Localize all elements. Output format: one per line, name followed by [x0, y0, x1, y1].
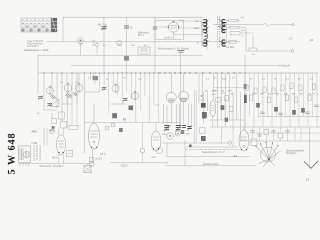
svg-text:50: 50 — [252, 94, 255, 96]
wire — [210, 120, 245, 127]
wire — [110, 162, 168, 164]
svg-text:50: 50 — [231, 94, 234, 96]
label row under HT bus — [88, 78, 142, 81]
wire top right long — [240, 140, 320, 142]
coil winding hatch L1 — [66, 93, 72, 98]
svg-text:50: 50 — [37, 113, 40, 115]
electrolytic C10 — [221, 105, 225, 110]
svg-text:5000: 5000 — [222, 79, 227, 81]
tube voltage table — [21, 18, 57, 32]
svg-text:8: 8 — [314, 94, 316, 96]
svg-text:2,4: 2,4 — [289, 38, 293, 41]
electrolytic C25 — [112, 113, 117, 118]
svg-text:0,1: 0,1 — [268, 94, 272, 96]
svg-text:50: 50 — [197, 43, 200, 45]
value labels row — [162, 134, 190, 137]
svg-text:0,1: 0,1 — [206, 79, 210, 81]
electrolytic C16 — [119, 128, 123, 132]
svg-text:Spannungswähler: Spannungswähler — [286, 150, 305, 153]
tube V3 AL4 — [151, 123, 161, 152]
switch wafer triangle — [50, 99, 59, 107]
wire — [186, 146, 238, 148]
variable coil L10 — [112, 83, 119, 93]
electrolytic C41 — [274, 107, 278, 112]
variable coil L2 — [75, 83, 83, 93]
trimmer capacitor C1 — [98, 17, 108, 73]
secondary winding bumps — [222, 20, 225, 47]
svg-text:a 13,4: a 13,4 — [96, 159, 103, 161]
output transformer T1 — [31, 143, 41, 161]
trimmer capacitor C23 — [123, 98, 128, 103]
svg-text:50: 50 — [130, 27, 133, 30]
resistor R25 — [294, 97, 297, 103]
resistor R22 — [281, 85, 284, 91]
wire main HT bus — [38, 72, 318, 74]
lower mid wires — [164, 73, 208, 125]
variable coil L11 — [132, 91, 139, 100]
capacitor C33 — [286, 131, 290, 133]
resistor R1 — [217, 19, 240, 22]
wire grid bus — [38, 54, 203, 56]
svg-text:a 4,8 V: a 4,8 V — [164, 37, 172, 40]
svg-text:5000: 5000 — [212, 90, 218, 92]
wire heater bus — [167, 156, 251, 158]
dial lamp 2 — [140, 148, 145, 153]
screen can — [50, 129, 55, 134]
terminal on AVC bus — [93, 41, 95, 43]
PSU value labels — [244, 94, 319, 96]
middle column wires — [91, 73, 159, 123]
svg-text:Netzanschl. 110-240 V: Netzanschl. 110-240 V — [40, 165, 64, 168]
wire pointer — [309, 127, 311, 168]
svg-text:0,1: 0,1 — [103, 45, 107, 47]
svg-text:300: 300 — [212, 94, 216, 96]
dial flag — [117, 41, 121, 45]
capacitor C13 — [181, 130, 184, 134]
wire — [221, 127, 240, 147]
wire — [245, 132, 320, 134]
grid capacitor C15 — [111, 123, 115, 127]
svg-text:5000: 5000 — [194, 28, 200, 30]
resistor R2 — [218, 26, 246, 29]
svg-text:M K L: M K L — [138, 34, 145, 37]
capacitor C32 — [272, 131, 276, 133]
tuning arrows — [202, 20, 209, 47]
svg-text:5000: 5000 — [117, 45, 123, 47]
electrolytic C9b — [202, 112, 207, 118]
resistor R3 — [227, 30, 254, 43]
cathode resistor R28 — [89, 158, 102, 167]
electrolytic C10b — [225, 118, 228, 122]
PSU column wires — [245, 73, 317, 127]
svg-text:AF 7: AF 7 — [100, 152, 106, 156]
coil box L20 — [200, 128, 206, 134]
svg-text:0,1: 0,1 — [310, 78, 314, 80]
svg-text:1W: 1W — [292, 94, 296, 96]
extra labels mid — [206, 77, 236, 96]
coil form box L6 — [52, 118, 57, 123]
svg-text:0,1: 0,1 — [286, 78, 290, 80]
svg-text:0,1: 0,1 — [205, 90, 209, 92]
variable coil L1 — [64, 83, 72, 93]
label right edge rows — [240, 16, 255, 56]
svg-text:50: 50 — [300, 94, 303, 96]
trimmer capacitor C22 — [102, 87, 107, 92]
wire stubs — [253, 127, 302, 141]
svg-text:AZ 1: AZ 1 — [52, 156, 58, 160]
potentiometer P1 — [167, 133, 173, 139]
resistor R21 — [272, 88, 275, 94]
resistor R19 — [263, 87, 266, 93]
trimmer cluster T-A — [164, 125, 170, 132]
svg-text:0,1: 0,1 — [60, 82, 64, 84]
resistor R26 — [299, 85, 302, 91]
coupling capacitor C3 — [153, 17, 157, 73]
resistor R27 — [308, 95, 311, 101]
tube V5 EM dial tube — [239, 127, 249, 151]
svg-text:50: 50 — [144, 45, 147, 47]
potentiometer P2 — [175, 131, 180, 136]
terminal — [228, 141, 231, 144]
svg-text:Skalenlampen ≈6,3 V: Skalenlampen ≈6,3 V — [202, 151, 225, 154]
svg-text:25: 25 — [250, 78, 253, 80]
svg-text:Hochantenne u. Erde: Hochantenne u. Erde — [24, 48, 49, 52]
trimmer capacitor C21 — [47, 103, 52, 108]
svg-text:40± 70±: 40± 70± — [98, 24, 107, 27]
svg-text:a 13: a 13 — [155, 105, 160, 107]
wire — [91, 149, 93, 164]
svg-text:0,5: 0,5 — [284, 94, 288, 96]
junction blob — [189, 145, 192, 148]
svg-text:24: 24 — [310, 38, 313, 42]
mains switch S2 — [84, 164, 92, 174]
svg-text:6+4,2(mA): 6+4,2(mA) — [278, 64, 290, 68]
wire AVC bus — [47, 41, 240, 43]
dial pointer arrow — [304, 161, 318, 169]
mixer tube box — [155, 20, 184, 39]
svg-text:50: 50 — [252, 54, 255, 56]
wire tuning stem — [179, 50, 181, 128]
capacitor C6 — [93, 73, 98, 80]
legend text block — [24, 39, 49, 52]
capacitor C52 — [305, 112, 309, 114]
svg-text:Wellenbereich: K M L D: Wellenbereich: K M L Drehko — [158, 48, 190, 51]
trimmer cluster T-C — [187, 125, 192, 131]
resistor R30 — [264, 130, 268, 135]
svg-text:4000: 4000 — [32, 131, 38, 133]
resistor R14 — [225, 96, 229, 101]
terminal ticks — [20, 164, 29, 167]
svg-text:5000: 5000 — [166, 126, 172, 128]
wire — [185, 148, 240, 150]
capacitor C30 — [251, 131, 255, 133]
label rotary switch — [286, 150, 305, 156]
label row under AVC bus — [92, 45, 147, 47]
capacitor C31 — [258, 135, 262, 137]
padder capacitor C2 — [124, 17, 133, 73]
resistor R20 — [267, 97, 270, 103]
resistor R15 — [229, 107, 233, 112]
trimmer capacitor C5 — [178, 51, 185, 53]
wire mains bus — [19, 163, 93, 165]
svg-text:0,1 MΩ: 0,1 MΩ — [226, 46, 234, 49]
wire — [245, 29, 247, 52]
IF transformer can BF2 — [166, 73, 176, 124]
svg-text:17: 17 — [306, 178, 310, 182]
wire antenna frame vertical — [62, 17, 64, 42]
resistor R16 — [245, 85, 248, 91]
capacitor C53 — [314, 105, 318, 107]
resistor R29 — [251, 139, 257, 146]
fuse box F1 — [67, 151, 73, 157]
wire — [84, 92, 180, 123]
wire — [252, 35, 254, 48]
switch box S1 — [138, 47, 150, 54]
wire — [213, 87, 245, 89]
resistor R31 — [278, 133, 282, 138]
wire oscillator bus — [71, 65, 277, 67]
wire screen feed — [83, 73, 85, 153]
svg-text:0,5: 0,5 — [123, 78, 127, 80]
right-mid column wires — [214, 73, 241, 127]
svg-text:≈0,5: ≈0,5 — [240, 16, 245, 19]
tube V6 EBF detector — [210, 101, 216, 128]
wire — [44, 128, 47, 146]
svg-text:110-240 V: 110-240 V — [27, 44, 39, 48]
electrolytic C9 — [200, 92, 205, 124]
wire — [244, 55, 246, 130]
rotary switch S3 voltage selector — [255, 141, 280, 167]
antenna terminal A — [78, 38, 84, 56]
coil form box L4 — [58, 112, 64, 119]
tube V4 AZ1 rectifier — [52, 128, 66, 164]
band switch label row — [158, 48, 190, 51]
electrolytic C56 — [244, 95, 247, 103]
svg-text:Netzanschluss: Netzanschluss — [203, 163, 219, 166]
tube U1 ECH — [168, 21, 180, 39]
coil winding hatch L3 — [51, 95, 57, 100]
resistor column rail — [226, 19, 228, 43]
resistor R13 — [216, 97, 221, 102]
svg-text:50: 50 — [214, 77, 217, 79]
capacitor C60 — [52, 126, 55, 128]
wire detector line — [213, 23, 294, 26]
svg-text:50: 50 — [276, 94, 279, 96]
wire — [166, 143, 168, 157]
trimmer capacitor C20 — [38, 96, 43, 101]
dark label row — [205, 90, 232, 92]
resistor R17 — [249, 95, 252, 101]
resistor R4 — [246, 48, 294, 52]
resistor R3b — [229, 40, 240, 43]
resistor R18 — [254, 88, 257, 94]
electrolytic C43 — [301, 108, 305, 113]
capacitor C7 — [124, 56, 129, 61]
svg-text:≈2: ≈2 — [241, 35, 244, 38]
wire heater line — [162, 142, 228, 144]
coil winding hatch L2 — [73, 92, 78, 96]
svg-text:2: 2 — [317, 94, 319, 96]
wire mains lower — [165, 165, 256, 167]
tube V2 AF7 — [89, 104, 107, 156]
dial lamp base — [157, 148, 163, 154]
svg-text:100: 100 — [131, 45, 135, 47]
svg-text:20: 20 — [92, 45, 95, 47]
wire — [184, 140, 186, 166]
resistor R28 — [312, 84, 315, 90]
electrolytic C40 — [256, 103, 260, 108]
wire — [44, 92, 77, 122]
svg-text:100: 100 — [217, 19, 221, 21]
junction dots left bus — [43, 72, 85, 73]
wire — [37, 55, 39, 73]
svg-text:100: 100 — [195, 21, 199, 23]
wire top bus — [63, 16, 203, 18]
grid cap AF7 — [96, 42, 99, 55]
svg-text:≈6,3: ≈6,3 — [233, 155, 238, 158]
svg-text:1 M: 1 M — [241, 30, 245, 32]
resistor R40 — [69, 125, 78, 129]
wire — [62, 96, 77, 128]
svg-text:110-240 V: 110-240 V — [286, 153, 297, 155]
loudspeaker LS — [19, 146, 31, 163]
svg-text:U 352: U 352 — [31, 143, 38, 145]
electrolytic C42 — [292, 110, 296, 115]
svg-text:300: 300 — [186, 134, 190, 136]
svg-text:1W: 1W — [228, 90, 232, 92]
capacitor C50 — [260, 112, 264, 114]
grid capacitor C14 — [105, 126, 109, 130]
coil form box L5 — [61, 122, 67, 128]
svg-text:≈6,3: ≈6,3 — [151, 156, 156, 159]
PSU value labels upper — [250, 78, 314, 80]
shielded lead pair — [194, 90, 196, 143]
variable coil L3 — [47, 86, 54, 96]
resistor R23 — [285, 95, 288, 101]
IF transformer can BF3 — [179, 73, 189, 124]
title 5 W 648 — [8, 134, 15, 174]
wire — [245, 116, 320, 127]
capacitor C55 — [244, 84, 247, 89]
capacitor C51 — [278, 113, 282, 115]
primary winding bumps — [204, 20, 207, 47]
svg-text:0,1: 0,1 — [232, 77, 236, 79]
resistor R24 — [290, 83, 293, 89]
junction dots on HT bus — [90, 72, 246, 73]
svg-text:0,1: 0,1 — [262, 78, 266, 80]
wire grid leads — [158, 21, 203, 35]
svg-text:4000: 4000 — [218, 26, 224, 28]
svg-text:≈220 V: ≈220 V — [120, 164, 128, 167]
coil bank verticals — [38, 73, 79, 112]
svg-text:30: 30 — [298, 78, 301, 80]
svg-text:2W: 2W — [260, 94, 264, 96]
electrolytic C24 — [129, 106, 134, 111]
electrolytic C9c — [201, 136, 206, 141]
IF transformer BF1 — [202, 16, 226, 50]
trimmer cluster T-B — [175, 125, 186, 132]
svg-text:0,1: 0,1 — [88, 78, 92, 80]
